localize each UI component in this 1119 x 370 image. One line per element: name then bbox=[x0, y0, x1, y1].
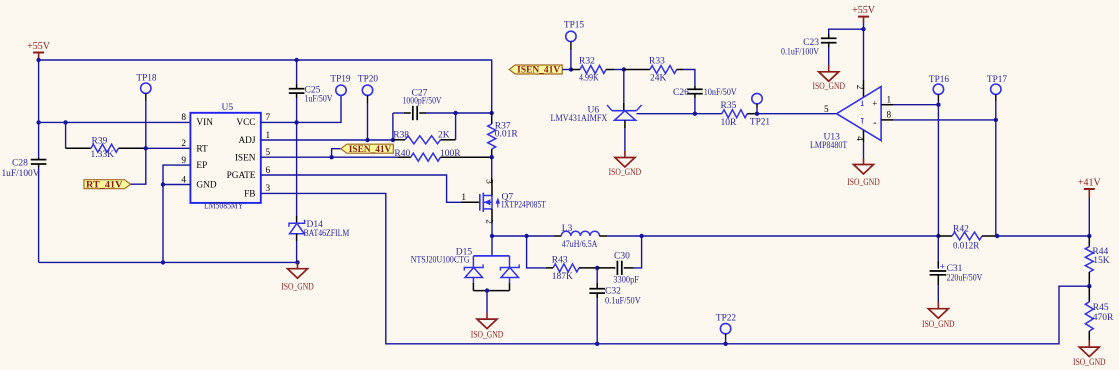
wire TP18 stem bbox=[145, 93, 147, 101]
wire ISEN node to Q7 bbox=[491, 157, 493, 178]
junction R42 right bbox=[995, 234, 999, 238]
wire TP17 stem bbox=[995, 94, 997, 101]
capacitor C31 220uF/50V bbox=[937, 236, 939, 261]
power +41V bbox=[1084, 188, 1095, 190]
wire Q7 node to L3 bbox=[492, 235, 554, 237]
junction C23 branch bbox=[861, 27, 865, 31]
wire L3 to R42 rail bbox=[607, 235, 938, 237]
svg-text:VCC: VCC bbox=[236, 118, 255, 128]
testpoint TP16 bbox=[933, 84, 943, 94]
junction C32-FB rail bbox=[595, 342, 599, 346]
shunt regulator U6 LMV431AIMFX bbox=[623, 70, 625, 104]
net label RT_41V bbox=[84, 180, 131, 189]
svg-text:ISO_GND: ISO_GND bbox=[281, 282, 314, 292]
wire C26 to ref line bbox=[694, 98, 696, 114]
svg-text:2: 2 bbox=[181, 139, 186, 149]
ground ISO_GND under D15 bbox=[486, 313, 488, 320]
junction R43-C30-C32 bbox=[595, 266, 599, 270]
wire C23 to gnd bbox=[828, 47, 830, 65]
wire R38 left vertical bbox=[392, 113, 394, 140]
svg-text:47uH/6.5A: 47uH/6.5A bbox=[562, 240, 598, 250]
svg-text:NTSJ20U100CTG: NTSJ20U100CTG bbox=[411, 255, 470, 265]
svg-text:TP19: TP19 bbox=[330, 75, 350, 85]
wire TP21 stem bbox=[756, 104, 758, 108]
wire pin2 vertical bbox=[863, 29, 865, 80]
svg-text:1uF/100V: 1uF/100V bbox=[2, 169, 40, 179]
diode D14 BAT46ZFILM bbox=[296, 216, 298, 223]
svg-text:ISO_GND: ISO_GND bbox=[847, 177, 880, 187]
wire VCC pin to TP19 bbox=[261, 96, 341, 123]
op-amp U13 LMP8480T bbox=[837, 87, 882, 141]
ground ISO_GND under U13 bbox=[863, 158, 865, 165]
wire TP22 stem bbox=[725, 334, 727, 339]
net label ISEN_41V (top) bbox=[509, 65, 562, 74]
wire D14 anode down bbox=[296, 241, 298, 262]
svg-text:EP: EP bbox=[196, 161, 207, 171]
svg-text:2: 2 bbox=[855, 85, 865, 90]
svg-text:1000pF/50V: 1000pF/50V bbox=[403, 96, 442, 106]
testpoint TP15 bbox=[566, 31, 576, 41]
net label ISEN_41V (mid) bbox=[332, 149, 341, 158]
svg-text:C28: C28 bbox=[12, 158, 28, 168]
svg-text:2: 2 bbox=[485, 219, 495, 224]
svg-text:1: 1 bbox=[887, 96, 892, 106]
op-amp trim marks bbox=[861, 101, 863, 106]
svg-text:ISEN: ISEN bbox=[235, 153, 256, 163]
testpoint TP17 bbox=[991, 84, 1001, 94]
wire R33 to C26 bbox=[683, 70, 695, 87]
resistor R37 0.01R bbox=[491, 113, 493, 124]
wire R35 to op-amp bbox=[757, 113, 837, 115]
junction TP17-pin8 bbox=[994, 118, 998, 122]
svg-text:R45: R45 bbox=[1093, 303, 1109, 313]
svg-text:R32: R32 bbox=[579, 57, 595, 67]
svg-text:U5: U5 bbox=[222, 103, 234, 113]
svg-text:TP16: TP16 bbox=[929, 75, 949, 85]
ground ISO_GND under C23 bbox=[828, 65, 830, 72]
svg-text:RT_41V: RT_41V bbox=[86, 179, 123, 189]
svg-text:RT: RT bbox=[196, 144, 208, 154]
capacitor C26 10nF/50V bbox=[694, 86, 696, 89]
svg-text:C32: C32 bbox=[605, 287, 621, 297]
svg-text:TP15: TP15 bbox=[564, 21, 584, 31]
svg-text:-: - bbox=[873, 118, 876, 129]
resistor R35 10R bbox=[722, 110, 747, 118]
junction TP20-ADJ bbox=[365, 138, 369, 142]
svg-text:100R: 100R bbox=[440, 149, 461, 159]
junction gnd run bbox=[161, 260, 165, 264]
resistor R40 100R bbox=[398, 156, 411, 158]
svg-text:470R: 470R bbox=[1093, 313, 1114, 323]
wire VIN net bbox=[39, 121, 191, 123]
junction R37 top bbox=[490, 111, 494, 115]
svg-text:ISEN_41V: ISEN_41V bbox=[517, 65, 561, 75]
svg-text:C31: C31 bbox=[947, 264, 963, 274]
junction R43 branch bbox=[524, 234, 528, 238]
resistor R39 1.33K bbox=[66, 147, 91, 149]
svg-text:BAT46ZFILM: BAT46ZFILM bbox=[304, 229, 350, 239]
wire GND pin to tie bbox=[163, 184, 190, 186]
svg-text:ISO_GND: ISO_GND bbox=[922, 319, 955, 329]
junction TP15 node bbox=[569, 67, 573, 71]
svg-text:R42: R42 bbox=[953, 225, 969, 235]
resistor R43 187K bbox=[546, 267, 553, 269]
svg-text:R40: R40 bbox=[394, 149, 410, 159]
svg-text:1: 1 bbox=[461, 193, 466, 203]
svg-text:0.012R: 0.012R bbox=[953, 242, 980, 252]
testpoint TP22 bbox=[720, 323, 730, 333]
capacitor C28 1uF/100V bbox=[38, 158, 40, 160]
wire C30 to L3 rail bbox=[634, 236, 642, 268]
svg-text:R43: R43 bbox=[552, 255, 568, 265]
wire R38 right vertical bbox=[455, 113, 457, 140]
svg-text:1uF/50V: 1uF/50V bbox=[305, 95, 333, 105]
wire PGATE net bbox=[261, 175, 461, 202]
wire D15 to ground bbox=[486, 291, 488, 313]
capacitor C23 0.1uF/100V bbox=[828, 34, 830, 38]
capacitor C27 1000pF/50V bbox=[393, 112, 404, 114]
capacitor C32 0.1uF/50V bbox=[596, 268, 598, 283]
junction C25 on +55V rail bbox=[294, 58, 298, 62]
svg-text:0.1uF/100V: 0.1uF/100V bbox=[781, 47, 819, 57]
svg-text:TP21: TP21 bbox=[750, 118, 770, 128]
wire FB net bbox=[261, 193, 1090, 343]
svg-text:TP17: TP17 bbox=[987, 75, 1007, 85]
junction R32-R33-U6 bbox=[622, 67, 626, 71]
svg-text:2K: 2K bbox=[438, 131, 450, 141]
resistor R32 4.99K bbox=[571, 69, 580, 71]
capacitor C30 3300pF bbox=[597, 267, 615, 269]
wire U6 ref to op-amp pin5 bbox=[637, 113, 722, 115]
wire C27 loop to R37 top bbox=[456, 112, 492, 114]
wire +55V rail top bbox=[39, 60, 492, 113]
junction RT node bbox=[144, 146, 148, 150]
ground ISO_GND under U5 bbox=[297, 262, 299, 268]
wire TP16 stem bbox=[937, 94, 939, 101]
wire R43 branch down bbox=[527, 236, 546, 268]
wire +55V to pin2 node bbox=[863, 23, 865, 29]
ground ISO_GND under R45 bbox=[1088, 340, 1090, 347]
svg-text:ISO_GND: ISO_GND bbox=[1073, 357, 1106, 367]
svg-text:ADJ: ADJ bbox=[238, 136, 255, 146]
svg-text:GND: GND bbox=[196, 181, 216, 191]
svg-text:1.33K: 1.33K bbox=[91, 150, 115, 160]
junction C30 branch bbox=[639, 234, 643, 238]
wire C32 to FB rail bbox=[596, 298, 598, 344]
svg-text:5: 5 bbox=[824, 105, 829, 115]
junction +41V-R42-R44 bbox=[1087, 234, 1091, 238]
junction VIN-left bbox=[36, 120, 40, 124]
wire D15 top tap bbox=[491, 236, 493, 255]
junction R37 bottom ISEN node bbox=[490, 155, 494, 159]
inductor L3 47uH/6.5A bbox=[554, 235, 561, 237]
junction TP21 node bbox=[755, 112, 759, 116]
junction EP-GND tie bbox=[161, 182, 165, 186]
transistor Q7 IXTP24P085T bbox=[461, 201, 480, 203]
wire TP15 stem bbox=[570, 42, 572, 50]
junction R42 left bbox=[936, 234, 940, 238]
wire label to node bbox=[562, 69, 571, 71]
svg-text:R33: R33 bbox=[649, 57, 665, 67]
op-amp U5 LM5085MY box bbox=[190, 113, 260, 203]
pin 8 wire bbox=[881, 119, 893, 121]
wire U6 anode to gnd bbox=[624, 120, 626, 128]
svg-text:10R: 10R bbox=[721, 118, 738, 128]
svg-text:24K: 24K bbox=[650, 74, 667, 84]
wire C31 to gnd bbox=[937, 285, 939, 302]
svg-text:8: 8 bbox=[181, 113, 186, 123]
junction R44-R45-FB bbox=[1087, 284, 1091, 288]
svg-text:R39: R39 bbox=[92, 137, 108, 147]
junction C26-ref line bbox=[693, 112, 697, 116]
wire R39 branch down bbox=[65, 122, 67, 148]
svg-text:TP22: TP22 bbox=[716, 313, 736, 323]
svg-text:8: 8 bbox=[887, 111, 892, 121]
wire D14 vertical from VCC node bbox=[296, 122, 298, 216]
testpoint TP20 bbox=[362, 85, 372, 95]
junction VCC node bbox=[294, 120, 298, 124]
svg-text:LMV431AIMFX: LMV431AIMFX bbox=[551, 114, 608, 124]
svg-text:3: 3 bbox=[485, 179, 495, 184]
junction TP16-pin1 bbox=[936, 103, 940, 107]
wire ADJ net bbox=[261, 139, 393, 141]
wire ISEN net bbox=[261, 156, 398, 158]
svg-text:L3: L3 bbox=[562, 224, 573, 234]
svg-text:LM5085MY: LM5085MY bbox=[204, 202, 243, 212]
junction R39 branch bbox=[63, 120, 67, 124]
svg-text:ISEN_41V: ISEN_41V bbox=[349, 144, 392, 154]
resistor R44 15K bbox=[1088, 236, 1090, 247]
junction D14 gnd corner bbox=[295, 260, 299, 264]
svg-text:+: + bbox=[940, 263, 945, 273]
wire left vertical from +55V to C28 bbox=[38, 60, 40, 158]
capacitor C25 1uF/50V bbox=[296, 60, 298, 84]
svg-text:ISO_GND: ISO_GND bbox=[609, 167, 642, 177]
svg-text:0.01R: 0.01R bbox=[495, 130, 519, 140]
svg-text:0.1uF/50V: 0.1uF/50V bbox=[605, 296, 641, 306]
svg-text:3300pF: 3300pF bbox=[613, 276, 639, 286]
testpoint TP18 bbox=[141, 83, 151, 93]
wire RT_41V to RT node bbox=[131, 148, 146, 184]
wire C28 bottom to ISO wire bbox=[38, 167, 40, 262]
svg-text:10nF/50V: 10nF/50V bbox=[704, 88, 737, 98]
resistor R33 24K bbox=[624, 69, 650, 71]
svg-text:187K: 187K bbox=[552, 272, 573, 282]
svg-text:+55V: +55V bbox=[852, 5, 876, 16]
svg-text:C26: C26 bbox=[673, 88, 689, 98]
wire Q7 drain down bbox=[491, 222, 493, 236]
svg-text:ISO_GND: ISO_GND bbox=[812, 81, 845, 91]
svg-text:VIN: VIN bbox=[196, 118, 213, 128]
junction D15 bottom tap bbox=[485, 288, 489, 292]
svg-text:15K: 15K bbox=[1093, 256, 1110, 266]
testpoint TP21 bbox=[752, 93, 762, 103]
wire bottom-left ground run bbox=[39, 261, 298, 263]
svg-text:7: 7 bbox=[266, 113, 271, 123]
resistor R45 470R bbox=[1088, 286, 1090, 302]
wire C23 branch bbox=[829, 29, 864, 34]
resistor R38 2K bbox=[393, 139, 405, 141]
pin 1 wire bbox=[881, 104, 893, 106]
junction +55V rail corner bbox=[36, 58, 40, 62]
wire EP pin to gnd tie bbox=[163, 165, 190, 262]
svg-text:TP18: TP18 bbox=[136, 73, 156, 83]
wire pin4 vertical bbox=[863, 130, 865, 142]
junction TP22-FB rail bbox=[723, 342, 727, 346]
ground ISO_GND under C31 bbox=[937, 302, 939, 309]
svg-text:R35: R35 bbox=[721, 101, 737, 111]
junction ISEN label tap bbox=[329, 155, 333, 159]
wire +41V stem bbox=[1088, 197, 1090, 236]
svg-text:ISO_GND: ISO_GND bbox=[471, 329, 504, 339]
ground ISO_GND under U6 bbox=[624, 151, 626, 158]
svg-text:+55V: +55V bbox=[27, 41, 51, 52]
svg-text:C30: C30 bbox=[614, 252, 630, 262]
svg-text:+41V: +41V bbox=[1078, 178, 1102, 189]
svg-text:R38: R38 bbox=[393, 131, 409, 141]
svg-text:FB: FB bbox=[244, 190, 255, 200]
svg-text:TP20: TP20 bbox=[358, 75, 378, 85]
wire R39 to RT pin bbox=[146, 147, 191, 149]
svg-text:4.99K: 4.99K bbox=[579, 74, 599, 84]
svg-text:+: + bbox=[872, 99, 877, 109]
testpoint TP19 bbox=[336, 85, 346, 95]
svg-text:PGATE: PGATE bbox=[227, 171, 256, 181]
wire R42 to +41V node bbox=[997, 235, 1089, 237]
power +55V (right) bbox=[858, 16, 869, 18]
wire C25 to VCC node bbox=[296, 98, 298, 122]
diode D15 NTSJ20U100CTG bbox=[473, 255, 509, 257]
junction Q7 drain node bbox=[490, 234, 494, 238]
svg-text:LMP8480T: LMP8480T bbox=[810, 141, 847, 151]
svg-text:IXTP24P085T: IXTP24P085T bbox=[502, 201, 546, 211]
svg-text:220uF/50V: 220uF/50V bbox=[947, 274, 983, 284]
wire R32 to node bbox=[614, 69, 624, 71]
resistor R42 0.012R bbox=[938, 235, 952, 237]
junction C27-R38 right bbox=[453, 111, 457, 115]
wire TP20 stem to ADJ bbox=[367, 95, 369, 103]
junction ADJ-R38 bbox=[391, 138, 395, 142]
power +55V (left) bbox=[33, 52, 44, 54]
